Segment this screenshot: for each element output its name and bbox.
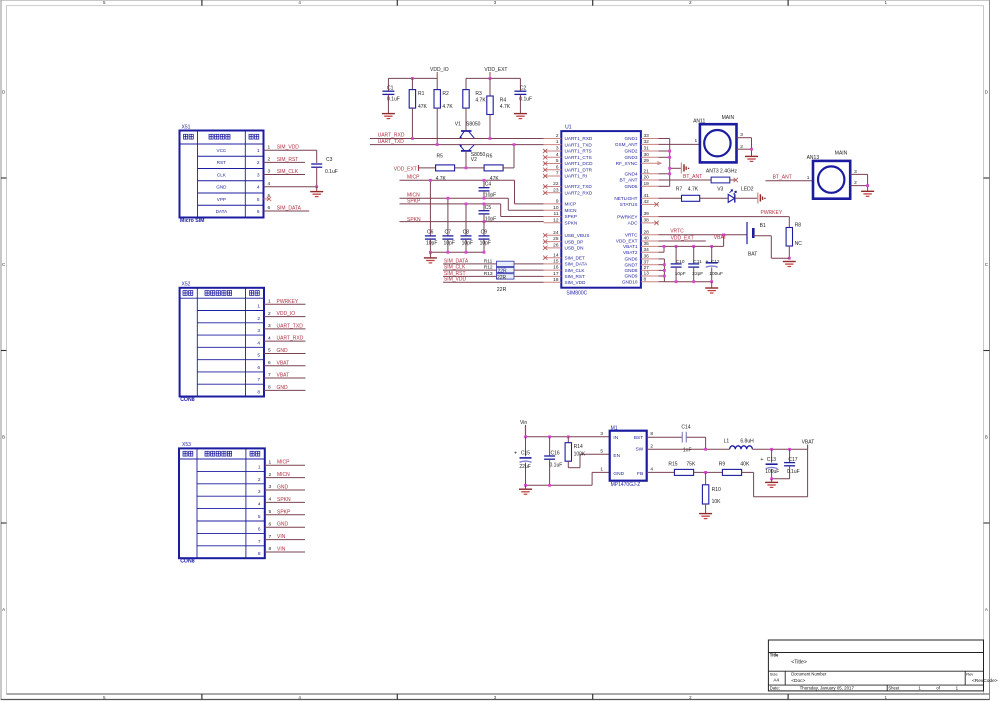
svg-text:1: 1	[807, 175, 810, 181]
svg-text:40: 40	[644, 236, 650, 242]
svg-text:GND: GND	[613, 471, 624, 477]
junction R6 branch/UART_TXD	[513, 143, 516, 146]
U1 pin 21 GND4	[624, 168, 658, 176]
svg-text:18: 18	[553, 277, 559, 283]
U1 pin 30 GND3	[624, 152, 658, 160]
power ground symbol (GND bus)	[681, 163, 689, 174]
svg-text:EN: EN	[613, 453, 620, 459]
svg-text:SIM_DATA: SIM_DATA	[565, 262, 589, 267]
wire R9 to VBAT node	[742, 449, 808, 497]
svg-text:8: 8	[257, 390, 260, 396]
svg-text:ADC: ADC	[628, 221, 639, 226]
svg-text:40K: 40K	[740, 462, 750, 468]
svg-text:2: 2	[854, 180, 857, 186]
capacitor C6	[425, 180, 438, 252]
svg-text:21: 21	[644, 168, 650, 174]
svg-text:GND1: GND1	[624, 136, 637, 141]
svg-text:22pF: 22pF	[692, 271, 703, 277]
battery B1 (BAT)	[747, 222, 766, 257]
svg-text:2: 2	[257, 160, 260, 166]
U1 pin 36 GND6	[624, 254, 658, 262]
svg-text:CON8: CON8	[180, 559, 195, 565]
U1 pin 33 GND1	[624, 133, 658, 141]
svg-text:U1: U1	[565, 125, 572, 131]
U1 pin 13 GND9	[624, 271, 658, 279]
ground below C15	[519, 489, 532, 494]
svg-text:GND: GND	[216, 185, 227, 190]
svg-text:UART2_TXD: UART2_TXD	[565, 184, 593, 189]
svg-text:100K: 100K	[574, 451, 586, 457]
svg-text:SIM_RST: SIM_RST	[277, 157, 299, 163]
svg-text:MP1470GJ-Z: MP1470GJ-Z	[611, 482, 641, 488]
svg-text:5: 5	[268, 348, 271, 354]
svg-text:17: 17	[553, 271, 559, 277]
AN13 pin 2 stub	[850, 180, 867, 186]
antenna connector AN11 (MAIN)	[693, 115, 736, 163]
wire bus to power-ground tap	[668, 167, 681, 170]
wire SIM_VDD (to U1)	[443, 277, 544, 283]
connector X52 (CON8)	[180, 282, 264, 403]
svg-text:2: 2	[268, 157, 271, 163]
wire MICP	[400, 175, 544, 204]
svg-text:SIM_CLK: SIM_CLK	[565, 268, 586, 273]
connector X51 (Micro SIM)	[180, 124, 264, 224]
wire bus to ground	[711, 282, 713, 288]
svg-text:12: 12	[553, 217, 559, 223]
wire C13/C17 ground link	[770, 477, 789, 480]
svg-text:UART_TXD: UART_TXD	[277, 323, 304, 329]
svg-text:6: 6	[268, 360, 271, 366]
svg-text:22R: 22R	[498, 268, 508, 274]
U1 pin 42 STATUS	[620, 199, 659, 207]
svg-text:5: 5	[257, 197, 260, 203]
svg-text:Document Number: Document Number	[791, 672, 827, 677]
svg-text:7: 7	[257, 377, 260, 383]
ground below C1	[382, 114, 395, 119]
svg-text:BT_ANT: BT_ANT	[683, 174, 702, 180]
wire VDD_EXT rail	[466, 77, 520, 79]
U1 pin 8 GND10	[622, 276, 659, 284]
svg-text:GND2: GND2	[624, 149, 637, 154]
svg-text:5: 5	[600, 448, 603, 454]
svg-text:Date:: Date:	[770, 686, 780, 691]
svg-text:VBAT: VBAT	[714, 235, 727, 241]
svg-text:9: 9	[556, 199, 559, 205]
svg-text:4: 4	[257, 185, 260, 191]
capacitor C3	[311, 157, 338, 187]
connector X53 (CON8)	[179, 442, 265, 565]
svg-text:A4: A4	[773, 678, 779, 683]
svg-text:1: 1	[600, 467, 603, 473]
svg-text:Sheet: Sheet	[888, 686, 900, 691]
svg-text:VPP: VPP	[217, 197, 226, 202]
svg-text:USB_DP: USB_DP	[565, 239, 584, 244]
ground below R10	[699, 514, 712, 519]
svg-text:NC: NC	[795, 241, 803, 247]
svg-text:7: 7	[269, 534, 272, 540]
U1 pin 26 USB_DN	[543, 243, 584, 251]
svg-text:8: 8	[644, 276, 647, 282]
junction VBAT/C12	[710, 245, 713, 248]
svg-text:<Title>: <Title>	[791, 660, 807, 666]
svg-text:VBAT: VBAT	[277, 373, 290, 379]
svg-text:1: 1	[695, 138, 698, 144]
svg-text:10pF: 10pF	[675, 271, 686, 277]
svg-text:SIM_CLK: SIM_CLK	[444, 265, 466, 271]
wire R8 to ground	[788, 246, 790, 258]
svg-text:100uF: 100uF	[765, 469, 779, 475]
capacitor C14 1nF (BST)	[647, 425, 706, 454]
svg-text:SIM_DET: SIM_DET	[565, 255, 585, 260]
U1 pin 7 UART1_RI	[543, 171, 587, 179]
ground below R8	[783, 262, 796, 267]
svg-text:26: 26	[553, 243, 559, 249]
junction R4/UART_RXD	[489, 137, 492, 140]
svg-text:C6: C6	[427, 230, 434, 236]
svg-text:C10: C10	[676, 259, 685, 265]
wire AN13 ground link	[866, 174, 869, 191]
wire GND from X52 pin 5	[264, 348, 306, 354]
svg-text:GND3: GND3	[624, 155, 637, 160]
svg-text:SIM_VDD: SIM_VDD	[444, 277, 467, 283]
ground below cap bus	[424, 252, 437, 263]
svg-text:37: 37	[644, 259, 650, 265]
svg-text:4: 4	[650, 467, 653, 473]
svg-text:22R: 22R	[497, 287, 507, 293]
svg-text:R15: R15	[668, 462, 677, 468]
wire VBAT from X52 pin 6	[264, 360, 306, 366]
wire UART_RXD from X52 pin 4	[264, 335, 306, 341]
svg-text:3: 3	[268, 323, 271, 329]
svg-text:GND: GND	[277, 348, 289, 354]
svg-text:75K: 75K	[686, 462, 696, 468]
U1 pin 27 GND8	[624, 265, 658, 273]
wire SIM_DATA (to U1)	[443, 258, 497, 264]
svg-text:6: 6	[556, 164, 559, 170]
svg-text:SIM_RST: SIM_RST	[565, 274, 585, 279]
svg-text:R12: R12	[484, 265, 493, 271]
svg-text:ANT3 2.4GHz: ANT3 2.4GHz	[706, 169, 738, 175]
svg-text:0.1uF: 0.1uF	[387, 97, 400, 103]
wire FB network	[647, 471, 675, 473]
capacitor C15 22uF	[514, 437, 532, 486]
capacitor C1	[382, 78, 399, 113]
wire GND bus (GND1-GND5)	[659, 139, 670, 187]
svg-text:SPKN: SPKN	[407, 217, 421, 223]
svg-text:42: 42	[644, 199, 650, 205]
junction Vin/C15	[524, 435, 527, 438]
svg-text:5: 5	[556, 158, 559, 164]
svg-text:SIM_CLK: SIM_CLK	[277, 169, 299, 175]
svg-text:10pF: 10pF	[426, 241, 437, 247]
svg-text:22R: 22R	[497, 275, 507, 281]
svg-text:C1: C1	[387, 85, 394, 91]
junction bus C8	[465, 251, 468, 254]
U1 pin 24 USB_VBUS	[543, 230, 590, 238]
svg-text:USB_VBUS: USB_VBUS	[565, 233, 590, 238]
svg-text:3: 3	[268, 169, 271, 175]
svg-text:2: 2	[740, 144, 743, 150]
svg-text:UART_RXD: UART_RXD	[277, 336, 304, 342]
wire VDD_IO from X52 pin 2	[264, 311, 306, 317]
svg-text:MICP: MICP	[565, 202, 577, 207]
svg-text:UART_RXD: UART_RXD	[378, 133, 405, 139]
wire GND from X53 pin 6	[265, 521, 305, 527]
ground below C13	[765, 482, 778, 487]
resistor R13 22R	[497, 274, 515, 279]
svg-text:UART1_RTS: UART1_RTS	[565, 149, 592, 154]
svg-text:DATA: DATA	[216, 209, 229, 214]
svg-text:22: 22	[553, 181, 559, 187]
wire SIM_RST (to U1)	[443, 271, 497, 277]
junction C6/MICP	[429, 179, 432, 182]
svg-text:8: 8	[268, 385, 271, 391]
wire SIM_VDD from X51 pin 1	[264, 144, 317, 162]
wire VDD_IO rail	[388, 77, 437, 79]
svg-text:2: 2	[268, 311, 271, 317]
svg-text:47K: 47K	[418, 104, 428, 110]
capacitor C8	[461, 204, 474, 252]
svg-text:5: 5	[258, 514, 261, 520]
wire C3 to ground	[316, 187, 318, 192]
junction bus C6	[429, 251, 432, 254]
svg-text:VDD_EXT: VDD_EXT	[394, 166, 417, 172]
svg-text:38: 38	[644, 218, 650, 224]
wire R12 to U1 pin 16	[514, 269, 544, 271]
U1 pin 23 UART2_RXD	[543, 187, 593, 195]
junction R2/UART_TXD	[436, 143, 439, 146]
svg-text:11: 11	[554, 211, 559, 217]
svg-text:1: 1	[268, 144, 271, 150]
svg-text:VDD_IO: VDD_IO	[430, 67, 449, 73]
svg-text:C7: C7	[445, 230, 452, 236]
svg-text:0.1uF: 0.1uF	[325, 169, 338, 175]
svg-text:GND4: GND4	[624, 172, 637, 177]
junction VBAT/C11	[692, 245, 695, 248]
svg-text:19: 19	[644, 181, 650, 187]
svg-text:GND9: GND9	[624, 274, 637, 279]
junction C4/MICP	[483, 179, 486, 182]
svg-text:R10: R10	[712, 487, 721, 493]
svg-text:23: 23	[553, 187, 559, 193]
wire BT_ANT from U1 pin 20	[659, 174, 712, 180]
svg-text:VCC: VCC	[217, 148, 227, 153]
svg-text:C12: C12	[711, 259, 720, 265]
ground below C3	[310, 192, 323, 197]
junction C5/SPKN	[483, 220, 486, 223]
junction gnd/C15	[524, 484, 527, 487]
svg-text:GND10: GND10	[622, 279, 638, 284]
svg-text:C8: C8	[463, 230, 470, 236]
svg-text:R6: R6	[486, 154, 493, 160]
svg-text:V3: V3	[717, 187, 723, 193]
svg-text:4: 4	[269, 497, 272, 503]
svg-text:A: A	[2, 607, 5, 612]
svg-text:VBAT2: VBAT2	[623, 250, 638, 255]
wire SIM_CLK from X51 pin 3	[264, 169, 306, 175]
X51 pin 5 stub (NC)	[264, 193, 272, 201]
U1 pin 38 ADC	[628, 218, 659, 226]
wire C13 gnd drop	[771, 479, 773, 483]
svg-text:R13: R13	[484, 271, 493, 277]
svg-text:MICN: MICN	[277, 472, 290, 478]
power symbol VDD_IO	[430, 67, 449, 79]
svg-text:UART1_TXD: UART1_TXD	[565, 142, 593, 147]
resistor R7 4.7K	[676, 187, 700, 202]
wire VBAT from X52 pin 7	[264, 372, 306, 378]
transistor V1 S8050	[455, 121, 481, 138]
svg-text:1: 1	[268, 299, 271, 305]
svg-text:4.7K: 4.7K	[442, 104, 453, 110]
ground below C12	[705, 288, 718, 293]
svg-text:39: 39	[644, 211, 650, 217]
svg-text:VIN: VIN	[277, 534, 286, 540]
IC M1 MP1470GJ-Z	[600, 425, 653, 488]
junction VDD_EXT/R4	[489, 77, 492, 80]
svg-text:31: 31	[644, 146, 650, 152]
svg-text:MAIN: MAIN	[835, 151, 848, 157]
svg-text:X53: X53	[182, 442, 191, 448]
resistor R5 4.7K	[436, 154, 455, 182]
svg-text:7: 7	[556, 171, 559, 177]
svg-text:8: 8	[258, 551, 261, 557]
U1 pin 15 SIM_DATA	[544, 259, 588, 267]
svg-text:SPKP: SPKP	[277, 509, 291, 515]
svg-text:27: 27	[644, 265, 650, 271]
svg-text:Micro SIM: Micro SIM	[180, 218, 205, 224]
U1 pin 18 SIM_VDD	[544, 277, 586, 285]
wire SPKP from X53 pin 5	[265, 509, 305, 515]
wire BT_ANT to AN13	[766, 174, 814, 180]
svg-text:C14: C14	[681, 425, 690, 431]
svg-text:3: 3	[269, 484, 272, 490]
inductor L1 6.8uH	[724, 438, 755, 449]
svg-text:R14: R14	[574, 444, 583, 450]
svg-text:BAT: BAT	[748, 251, 757, 257]
wire UART_TXD	[370, 139, 544, 145]
svg-text:PWRKEY: PWRKEY	[277, 299, 299, 305]
capacitor C10	[671, 246, 686, 281]
svg-text:VIN: VIN	[277, 547, 286, 553]
U1 pin 40 VDD_EXT	[616, 236, 659, 244]
capacitor C5 (SPKP-SPKN)	[479, 204, 497, 223]
svg-text:10pF: 10pF	[485, 216, 496, 222]
svg-text:35: 35	[644, 241, 650, 247]
svg-text:STATUS: STATUS	[620, 202, 638, 207]
U1 pin 32 GSM_ANT	[615, 139, 659, 147]
svg-text:BST: BST	[634, 435, 643, 441]
svg-text:<Doc>: <Doc>	[791, 678, 805, 684]
svg-text:3: 3	[740, 132, 743, 138]
svg-text:B: B	[2, 435, 5, 440]
svg-text:Thursday, January 05, 2017: Thursday, January 05, 2017	[800, 686, 855, 691]
resistor R6 47K	[484, 154, 503, 182]
svg-text:4.7K: 4.7K	[688, 187, 699, 193]
resistor R3 4.7K	[463, 78, 487, 131]
svg-text:4.7K: 4.7K	[500, 104, 511, 110]
wire M1 GND return	[526, 472, 610, 485]
junction bus GND2	[668, 150, 671, 153]
svg-text:X52: X52	[182, 282, 191, 288]
svg-text:6: 6	[257, 365, 260, 371]
wire R13 to U1 pin 17	[514, 275, 544, 277]
svg-text:25: 25	[553, 236, 559, 242]
svg-text:10pF: 10pF	[480, 241, 491, 247]
svg-text:UART1_RI: UART1_RI	[565, 174, 588, 179]
svg-text:VDD_EXT: VDD_EXT	[671, 236, 694, 242]
junction gnd bus pins	[663, 263, 713, 283]
svg-text:10K: 10K	[712, 499, 722, 505]
wire R6 to UART_TXD	[503, 145, 514, 168]
svg-text:3: 3	[257, 328, 260, 334]
svg-text:UART1_RXD: UART1_RXD	[565, 136, 593, 141]
svg-text:R8: R8	[795, 223, 802, 229]
junction C8/SPKP	[465, 203, 468, 206]
svg-text:GND6: GND6	[624, 257, 637, 262]
svg-text:MAIN: MAIN	[722, 115, 735, 121]
U1 pin 2 UART1_RXD	[544, 133, 593, 141]
power symbol VDD_EXT	[484, 67, 507, 79]
svg-text:34: 34	[644, 247, 650, 253]
svg-text:X51: X51	[182, 124, 191, 130]
power symbol Vin	[520, 420, 527, 437]
svg-text:33: 33	[644, 133, 650, 139]
svg-text:SIM_DATA: SIM_DATA	[444, 258, 469, 264]
junction bus C9	[483, 251, 486, 254]
svg-text:VDD_IO: VDD_IO	[277, 311, 296, 317]
junction Vin/C16	[548, 435, 551, 438]
wire GND from X53 pin 3	[265, 484, 305, 490]
svg-text:10: 10	[553, 205, 559, 211]
svg-text:+: +	[760, 457, 763, 463]
svg-text:C15: C15	[521, 450, 530, 456]
svg-text:MICP: MICP	[277, 460, 290, 466]
svg-text:VBAT: VBAT	[277, 360, 290, 366]
junction bus GND4	[668, 172, 671, 175]
U1 pin 37 GND7	[624, 259, 658, 267]
junction VBAT/C10	[675, 245, 678, 248]
svg-text:4: 4	[556, 152, 559, 158]
svg-text:6.8uH: 6.8uH	[740, 438, 754, 444]
svg-text:BT_ANT: BT_ANT	[773, 174, 792, 180]
junction R1/UART_RXD	[411, 137, 414, 140]
svg-text:SIM800C: SIM800C	[566, 291, 587, 297]
svg-text:8: 8	[650, 431, 653, 437]
resistor R8 (NC)	[786, 223, 802, 247]
svg-text:30: 30	[644, 152, 650, 158]
svg-text:32: 32	[644, 139, 650, 145]
capacitor C13 100uF	[760, 449, 779, 479]
svg-text:0.1uF: 0.1uF	[550, 462, 563, 468]
wire GND6-GND10 bus	[659, 259, 712, 282]
svg-text:2: 2	[556, 133, 559, 139]
svg-text:C13: C13	[767, 457, 776, 463]
svg-text:R5: R5	[437, 154, 444, 160]
wire R15-R9	[694, 471, 723, 473]
wire VRTC	[659, 228, 748, 235]
U1 pin 10 MICN	[544, 205, 577, 213]
svg-text:GND5: GND5	[624, 184, 637, 189]
transistor V2 S8050	[459, 144, 485, 168]
svg-text:6: 6	[268, 205, 271, 211]
svg-text:PWRKEY: PWRKEY	[761, 210, 783, 216]
wire SPKN	[400, 217, 544, 223]
svg-text:4: 4	[268, 335, 271, 341]
svg-text:LED2: LED2	[741, 187, 754, 193]
svg-text:R1: R1	[418, 91, 425, 97]
svg-text:R11: R11	[484, 258, 493, 264]
svg-text:B: B	[985, 435, 988, 440]
